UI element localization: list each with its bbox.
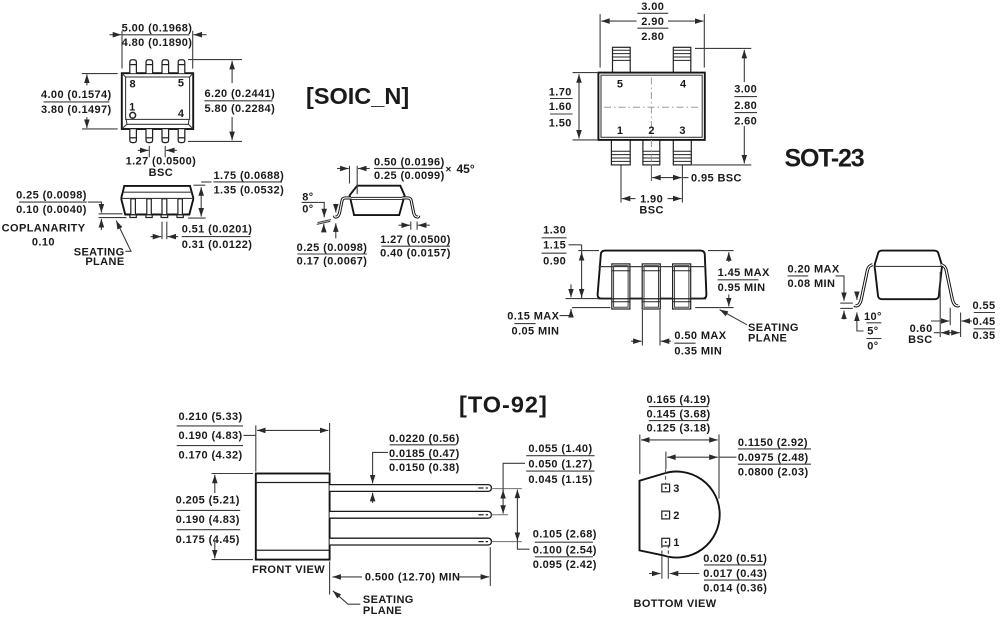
svg-text:0.020 (0.51): 0.020 (0.51) xyxy=(703,553,767,565)
TO-92 bottom view pin 1 square xyxy=(662,537,680,549)
SOIC top view body xyxy=(122,73,193,129)
SOIC top view pin 8 (top row) xyxy=(130,60,185,73)
svg-text:1.27 (0.0500): 1.27 (0.0500) xyxy=(380,234,451,246)
SOIC side view body xyxy=(121,186,193,215)
svg-text:1.27 (0.0500): 1.27 (0.0500) xyxy=(126,156,197,168)
SOIC top view bottom pins xyxy=(130,129,185,142)
svg-text:0.25 (0.0099): 0.25 (0.0099) xyxy=(374,170,445,182)
svg-text:0.35: 0.35 xyxy=(972,330,995,342)
svg-text:0.17 (0.0067): 0.17 (0.0067) xyxy=(297,256,368,268)
SOT-23 foot ticks right xyxy=(939,272,941,337)
SOT-23 end view body xyxy=(875,251,942,300)
svg-text:1.50: 1.50 xyxy=(549,117,572,129)
svg-text:1.30: 1.30 xyxy=(543,225,566,237)
SOT-23 bottom pad hatch lines xyxy=(611,151,691,161)
svg-text:0.165 (4.19): 0.165 (4.19) xyxy=(646,394,710,406)
svg-text:BOTTOM VIEW: BOTTOM VIEW xyxy=(634,598,717,610)
svg-text:0.08 MIN: 0.08 MIN xyxy=(788,278,836,290)
svg-text:5: 5 xyxy=(617,78,624,90)
svg-text:0.145 (3.68): 0.145 (3.68) xyxy=(646,408,710,420)
TO-92 lead 1 centerline xyxy=(491,488,521,490)
SOIC dim 1.27 BSC ticks xyxy=(148,146,150,157)
SOT-23 dim 1.70/1.60/1.50 left xyxy=(573,72,598,74)
SOT-23 pin 2 centerline extension xyxy=(650,140,652,165)
svg-text:8: 8 xyxy=(130,78,137,90)
SOT-23 side view pins xyxy=(612,264,691,309)
TO-92 dim 0.165 line xyxy=(639,435,641,475)
svg-text:0.0185 (0.47): 0.0185 (0.47) xyxy=(389,448,460,460)
svg-text:0.050 (1.27): 0.050 (1.27) xyxy=(528,459,592,471)
svg-text:BSC: BSC xyxy=(149,167,173,179)
svg-text:1.15: 1.15 xyxy=(543,240,566,252)
svg-text:2: 2 xyxy=(648,125,655,137)
svg-text:0.125 (3.18): 0.125 (3.18) xyxy=(646,423,710,435)
SEATING PLANE leader (SOIC) xyxy=(116,221,131,252)
svg-text:2.80: 2.80 xyxy=(641,31,664,43)
SOIC end view body xyxy=(350,186,405,215)
svg-text:0.20 MAX: 0.20 MAX xyxy=(788,264,840,276)
svg-text:0.0220 (0.56): 0.0220 (0.56) xyxy=(389,433,460,445)
SOIC dim 6.20 arrows xyxy=(231,61,233,83)
SOT-23 dim 3.00/2.90/2.80 top xyxy=(599,14,601,68)
TO-92 bottom view lead wires below pin1 xyxy=(662,545,668,579)
svg-text:0.500 (12.70) MIN: 0.500 (12.70) MIN xyxy=(365,572,460,584)
SOT-23 dim 0.50 MAX xyxy=(641,310,643,346)
svg-text:3.80 (0.1497): 3.80 (0.1497) xyxy=(41,104,112,116)
svg-text:0.10 (0.0040): 0.10 (0.0040) xyxy=(16,204,87,216)
svg-text:COPLANARITY: COPLANARITY xyxy=(2,222,86,234)
TO-92 lead 3 xyxy=(330,538,492,545)
TO-92 bottom view centerline above pin3 xyxy=(665,469,667,483)
svg-text:6.20 (0.2441): 6.20 (0.2441) xyxy=(205,88,276,100)
svg-text:2.60: 2.60 xyxy=(734,115,757,127)
SOT-23 end seating lines xyxy=(840,302,853,304)
SOT-23 end view parting line xyxy=(875,265,942,267)
SOT-23 dim 3.00/2.80/2.60 right xyxy=(695,47,751,49)
TO-92 dim 0.500 MIN xyxy=(332,576,362,578)
SOIC seating plane lines xyxy=(99,213,123,215)
svg-text:0.017 (0.43): 0.017 (0.43) xyxy=(703,568,767,580)
svg-text:0.205 (5.21): 0.205 (5.21) xyxy=(176,495,240,507)
svg-text:0.55: 0.55 xyxy=(972,300,995,312)
SOIC dim 1.27 BSC arrows xyxy=(138,149,149,151)
SOIC chamfer dim 0.50 x 45 ticks xyxy=(349,166,351,184)
SOIC dim 1.75 right xyxy=(200,187,202,216)
svg-text:1: 1 xyxy=(129,101,136,113)
svg-text:PLANE: PLANE xyxy=(363,605,402,617)
SOT-23 side body lines over pins xyxy=(599,266,706,268)
svg-text:0°: 0° xyxy=(302,204,313,216)
SOT-23 dim 0.15 MAX arrows xyxy=(570,284,572,297)
TO-92 dim 0.0220 leader xyxy=(373,452,388,483)
SOIC side view pins xyxy=(130,199,183,218)
svg-text:0.95 MIN: 0.95 MIN xyxy=(718,282,766,294)
svg-text:0.1150 (2.92): 0.1150 (2.92) xyxy=(738,437,808,449)
svg-text:4.00 (0.1574): 4.00 (0.1574) xyxy=(41,89,112,101)
svg-text:0.25 (0.0098): 0.25 (0.0098) xyxy=(297,242,368,254)
svg-text:BSC: BSC xyxy=(908,334,932,346)
SOIC coplanarity leader xyxy=(88,202,102,213)
SOT-23 dim 0.20 MAX leader xyxy=(836,276,845,301)
svg-text:2: 2 xyxy=(673,510,680,522)
SOT-23 dim 0.95 BSC xyxy=(652,177,681,179)
svg-text:SOT-23: SOT-23 xyxy=(785,145,864,173)
TO-92 dim 0.205 left xyxy=(212,473,254,475)
svg-text:0.25 (0.0098): 0.25 (0.0098) xyxy=(16,189,87,201)
TO-92 lead 2 centerline xyxy=(491,514,508,516)
svg-text:3: 3 xyxy=(679,125,686,137)
svg-text:PLANE: PLANE xyxy=(748,332,787,344)
svg-text:0.100 (2.54): 0.100 (2.54) xyxy=(533,545,597,557)
svg-text:1.45 MAX: 1.45 MAX xyxy=(718,267,770,279)
svg-text:PLANE: PLANE xyxy=(85,256,124,268)
svg-text:1.60: 1.60 xyxy=(549,101,572,113)
svg-text:4: 4 xyxy=(680,78,687,90)
SOT-23 top pad hatch lines xyxy=(613,50,691,60)
TO-92 lead 2 xyxy=(330,511,492,518)
svg-text:5°: 5° xyxy=(867,326,878,338)
TO-92 lead 3 centerline xyxy=(491,541,521,543)
SOT-23 end view right lead xyxy=(941,265,959,306)
svg-text:3.00: 3.00 xyxy=(734,84,757,96)
SOIC dim 5.00 top: extension lines xyxy=(121,31,123,69)
svg-text:3.00: 3.00 xyxy=(641,1,664,13)
SOIC dim 6.20 right: extension lines xyxy=(188,59,242,61)
svg-text:10°: 10° xyxy=(864,311,882,323)
svg-text:0.45: 0.45 xyxy=(972,316,995,328)
svg-text:0.50 (0.0196): 0.50 (0.0196) xyxy=(374,156,445,168)
svg-text:1: 1 xyxy=(617,125,624,137)
svg-text:0.0975 (2.48): 0.0975 (2.48) xyxy=(738,452,809,464)
svg-text:0.90: 0.90 xyxy=(543,256,566,268)
SOIC dim 0.51 lead width xyxy=(161,222,163,240)
TO-92 dim 0.020 arrows xyxy=(649,573,661,575)
svg-text:×: × xyxy=(446,164,452,175)
svg-text:BSC: BSC xyxy=(639,204,663,216)
SOIC dim 5.00 arrows xyxy=(110,34,122,36)
TO-92 dim 0.210 top xyxy=(255,425,257,471)
SOT-23 dim 1.90 BSC xyxy=(622,198,636,200)
svg-text:5.00 (0.1968): 5.00 (0.1968) xyxy=(122,22,193,34)
SOT-23 side view body xyxy=(598,251,707,299)
TO-92 lead 1 xyxy=(330,485,492,492)
SOT-23 centerlines xyxy=(604,78,700,138)
svg-text:2.80: 2.80 xyxy=(734,100,757,112)
svg-text:0.045 (1.15): 0.045 (1.15) xyxy=(528,474,592,486)
SOT-23 top view top pin 5 pad xyxy=(613,47,691,72)
svg-text:FRONT VIEW: FRONT VIEW xyxy=(252,564,325,576)
svg-text:1.75 (0.0688): 1.75 (0.0688) xyxy=(214,170,285,182)
SOIC lead angle leader xyxy=(319,202,324,217)
SOT-23 pin center extension lines xyxy=(620,166,622,203)
svg-text:5: 5 xyxy=(178,78,185,90)
svg-text:4: 4 xyxy=(178,108,185,120)
SOT-23 end view left lead xyxy=(855,265,873,306)
svg-text:0.0150 (0.38): 0.0150 (0.38) xyxy=(389,462,460,474)
svg-text:0.95 BSC: 0.95 BSC xyxy=(691,172,742,184)
TO-92 dim 0.050 leader xyxy=(503,463,525,514)
TO-92 dim 0.105 line xyxy=(516,490,518,541)
SOT-23 bottom pins pads xyxy=(611,140,691,165)
SOIC dim 1.27/0.40 foot ticks xyxy=(410,222,412,230)
svg-text:0.170 (4.32): 0.170 (4.32) xyxy=(178,449,242,461)
svg-text:0.095 (2.42): 0.095 (2.42) xyxy=(533,559,597,571)
svg-text:0.35 MIN: 0.35 MIN xyxy=(674,346,722,358)
svg-text:0.190 (4.83): 0.190 (4.83) xyxy=(178,430,242,442)
TO-92 dim 0.1150 line xyxy=(665,452,667,469)
svg-text:1.35 (0.0532): 1.35 (0.0532) xyxy=(214,184,285,196)
svg-text:0.31 (0.0122): 0.31 (0.0122) xyxy=(182,239,253,251)
SOIC end view left lead xyxy=(335,198,352,217)
SOT-23 dim 1.45 MAX right xyxy=(708,250,734,252)
SOIC dim 4.00 left: extension lines xyxy=(82,73,118,75)
SOT-23 dim 0.45 arrows xyxy=(931,320,949,322)
svg-text:0.210 (5.33): 0.210 (5.33) xyxy=(178,411,242,423)
TO-92 bottom view pin 2 square xyxy=(662,510,680,522)
svg-text:1: 1 xyxy=(673,537,680,549)
svg-text:0°: 0° xyxy=(867,340,878,352)
svg-text:45°: 45° xyxy=(457,162,475,176)
SOT-23 end up arrow xyxy=(843,311,845,320)
svg-text:0.190 (4.83): 0.190 (4.83) xyxy=(176,514,240,526)
TO-92 front view body xyxy=(256,474,330,560)
svg-text:0.0800 (2.03): 0.0800 (2.03) xyxy=(738,466,809,478)
svg-text:[TO-92]: [TO-92] xyxy=(459,392,548,418)
svg-text:0.50 MAX: 0.50 MAX xyxy=(674,330,726,342)
svg-text:0.51 (0.0201): 0.51 (0.0201) xyxy=(182,224,253,236)
svg-text:0.105 (2.68): 0.105 (2.68) xyxy=(533,529,597,541)
TO-92 bottom view outline xyxy=(640,472,720,558)
SOT-23 side ext lines xyxy=(578,250,599,252)
svg-text:5.80 (0.2284): 5.80 (0.2284) xyxy=(205,103,276,115)
svg-text:4.80 (0.1890): 4.80 (0.1890) xyxy=(122,37,193,49)
SOT-23 foot arrows xyxy=(856,293,858,300)
SOIC end view right lead xyxy=(402,198,419,217)
svg-text:0.175 (4.45): 0.175 (4.45) xyxy=(176,534,240,546)
svg-text:0.40 (0.0157): 0.40 (0.0157) xyxy=(380,248,451,260)
SOT-23 top view body xyxy=(598,73,704,140)
svg-text:0.05 MIN: 0.05 MIN xyxy=(512,325,560,337)
SOIC lead thickness arrows xyxy=(335,204,337,213)
svg-text:[SOIC_N]: [SOIC_N] xyxy=(306,83,409,109)
TO-92 bottom view pin 3 square xyxy=(662,483,680,495)
SOIC dim 4.00 arrows xyxy=(86,74,88,85)
SOT-23 dim 0.60 BSC xyxy=(934,332,940,334)
svg-text:2.90: 2.90 xyxy=(641,16,664,28)
svg-text:8°: 8° xyxy=(302,191,313,203)
SOIC pin-1 index circle xyxy=(130,112,136,118)
svg-text:0.10: 0.10 xyxy=(32,236,55,248)
svg-text:0.055 (1.40): 0.055 (1.40) xyxy=(528,443,592,455)
svg-text:3: 3 xyxy=(673,483,680,495)
svg-text:0.15 MAX: 0.15 MAX xyxy=(507,310,559,322)
svg-text:1.70: 1.70 xyxy=(549,86,572,98)
svg-text:0.014 (0.36): 0.014 (0.36) xyxy=(703,582,767,594)
